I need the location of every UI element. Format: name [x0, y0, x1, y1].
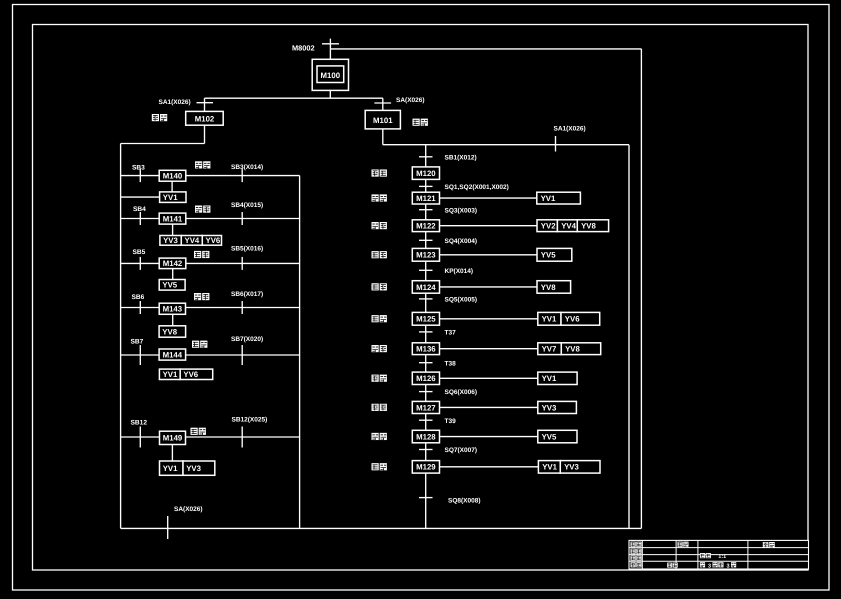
- svg-text:M126: M126: [416, 374, 436, 383]
- svg-text:SB7: SB7: [131, 339, 144, 346]
- svg-text:YV3: YV3: [564, 463, 579, 472]
- wire: [121, 125, 205, 143]
- svg-text:M142: M142: [163, 259, 183, 268]
- contact SB5: [133, 249, 146, 270]
- wire rung M140: [121, 175, 300, 177]
- svg-text:SA1(X026): SA1(X026): [159, 99, 191, 106]
- step M149: [160, 431, 186, 444]
- svg-text:1:1: 1:1: [718, 554, 726, 560]
- label M127 function: [372, 404, 379, 411]
- step M101: [365, 110, 400, 128]
- svg-text:T39: T39: [445, 418, 457, 425]
- svg-text:YV7: YV7: [542, 345, 557, 354]
- coil group YV1: [537, 192, 581, 204]
- wire: [172, 269, 174, 280]
- svg-text:YV3: YV3: [186, 464, 201, 473]
- label M120 function: [372, 169, 379, 176]
- svg-text:M124: M124: [416, 283, 436, 292]
- svg-text:SA(X026): SA(X026): [174, 506, 203, 513]
- svg-text:M125: M125: [416, 315, 436, 324]
- transition SB5(X016): [231, 246, 263, 270]
- svg-text:M122: M122: [416, 222, 436, 231]
- svg-text:M141: M141: [163, 214, 183, 223]
- coil group YV8: [537, 281, 571, 294]
- svg-text:YV1: YV1: [163, 370, 178, 379]
- svg-text:SQ7(X007): SQ7(X007): [445, 447, 478, 454]
- coil group YV1: [160, 192, 186, 203]
- wire bottom: [121, 527, 642, 529]
- wire auto bus: [425, 145, 427, 529]
- svg-text:YV6: YV6: [565, 315, 580, 324]
- svg-text:M127: M127: [416, 403, 436, 412]
- step M123: [412, 248, 439, 261]
- svg-text:M144: M144: [163, 350, 183, 359]
- svg-text:YV1: YV1: [542, 315, 557, 324]
- coil group YV5: [537, 248, 572, 261]
- svg-text:SQ5(X005): SQ5(X005): [445, 297, 478, 304]
- coil group YV1/YV3: [160, 461, 215, 475]
- coil group YV1/YV6: [538, 312, 600, 325]
- wire return right outer: [640, 49, 642, 529]
- svg-text:YV5: YV5: [541, 251, 556, 260]
- wire: [440, 254, 538, 256]
- svg-text:SB5(X016): SB5(X016): [231, 246, 263, 253]
- step M141: [159, 213, 186, 224]
- wire rung M143: [121, 307, 300, 309]
- label M142 function: [194, 251, 201, 258]
- svg-text:SB12: SB12: [131, 420, 148, 427]
- svg-text:YV1: YV1: [541, 194, 556, 203]
- coil group YV3/YV4/YV6: [160, 236, 222, 246]
- transition SB3(X014): [231, 164, 263, 182]
- transition SQ6(X006): [419, 389, 477, 396]
- svg-text:T38: T38: [445, 360, 457, 367]
- transition SQ8(X008): [419, 497, 481, 504]
- svg-text:YV4: YV4: [561, 222, 576, 231]
- svg-text:M102: M102: [195, 115, 215, 124]
- svg-text:YV4: YV4: [185, 236, 200, 245]
- step M125: [412, 312, 439, 325]
- transition SQ1,SQ2(X001,X002): [419, 184, 509, 191]
- wire: [329, 39, 331, 60]
- svg-text:SB4(X015): SB4(X015): [231, 202, 263, 209]
- transition SQ4(X004): [419, 238, 477, 245]
- transition SQ3(X003): [419, 207, 477, 214]
- step M143: [159, 303, 185, 314]
- svg-text:M123: M123: [416, 251, 436, 260]
- step M129: [412, 461, 439, 474]
- title block: [629, 540, 809, 569]
- transition SB12(X025): [232, 417, 268, 448]
- coil group YV1/YV3: [538, 461, 600, 474]
- step M142: [159, 258, 186, 269]
- step M136: [412, 343, 439, 355]
- label M136 function: [372, 345, 379, 352]
- svg-text:YV3: YV3: [163, 236, 178, 245]
- svg-text:YV1: YV1: [163, 193, 178, 202]
- wire: [440, 348, 538, 350]
- svg-text:M140: M140: [163, 172, 183, 181]
- svg-text:M100: M100: [321, 71, 341, 80]
- initial step M100: [312, 59, 348, 90]
- coil group YV7/YV8: [538, 343, 601, 355]
- coil group YV5: [159, 280, 185, 291]
- svg-text:M8002: M8002: [292, 44, 315, 53]
- transition SB1(X012): [419, 154, 477, 161]
- label M122 function: [372, 222, 379, 229]
- svg-text:SB1(X012): SB1(X012): [445, 154, 477, 161]
- label M141 function: [195, 206, 202, 213]
- wire rung M149: [121, 436, 300, 438]
- svg-text:YV3: YV3: [542, 403, 557, 412]
- wire: [382, 98, 384, 110]
- transition SQ5(X005): [419, 297, 477, 304]
- step M140: [159, 170, 186, 181]
- svg-text:YV1: YV1: [542, 463, 557, 472]
- label M140 function: [195, 161, 202, 168]
- contact SB7: [131, 339, 144, 365]
- svg-text:M121: M121: [416, 194, 436, 203]
- contact SB4: [133, 206, 146, 225]
- coil group YV3: [538, 401, 577, 413]
- wire: [440, 406, 538, 408]
- label M123 function: [372, 251, 379, 258]
- svg-text:SQ6(X006): SQ6(X006): [445, 389, 478, 396]
- svg-text:SQ8(X008): SQ8(X008): [448, 497, 481, 504]
- step M120: [412, 167, 439, 180]
- svg-text:SB7(X020): SB7(X020): [231, 336, 263, 343]
- label M129 function: [372, 463, 379, 470]
- label M128 function: [372, 433, 379, 440]
- step M144: [159, 349, 186, 360]
- svg-text:YV5: YV5: [162, 281, 177, 290]
- label M121 function: [372, 194, 379, 201]
- svg-text:YV6: YV6: [183, 370, 198, 379]
- wire branch: [205, 97, 383, 99]
- svg-text:SB4: SB4: [133, 206, 146, 213]
- svg-text:SB3: SB3: [132, 165, 145, 172]
- svg-text:M143: M143: [163, 305, 183, 314]
- transition T38: [419, 360, 456, 367]
- svg-text:SA1(X026): SA1(X026): [554, 126, 586, 133]
- label M125 function: [372, 315, 379, 322]
- wire: [440, 377, 538, 379]
- wire: [440, 318, 538, 320]
- svg-text:YV8: YV8: [541, 283, 556, 292]
- svg-text:YV1: YV1: [163, 464, 178, 473]
- step M126: [412, 372, 439, 384]
- svg-text:YV2: YV2: [541, 222, 556, 231]
- label M144 function: [192, 341, 199, 348]
- transition SA1(X026) manual: [159, 99, 214, 106]
- wire: [171, 445, 173, 462]
- wire rung M141: [121, 218, 300, 220]
- svg-text:SB6: SB6: [132, 294, 145, 301]
- svg-text:YV6: YV6: [206, 236, 221, 245]
- step M127: [412, 401, 439, 413]
- step M124: [412, 281, 439, 294]
- svg-text:SQ3(X003): SQ3(X003): [445, 207, 478, 214]
- transition SB6(X017): [231, 291, 263, 314]
- wire manual right bus: [299, 176, 301, 529]
- transition SA(X026) auto: [374, 97, 424, 104]
- transition SA(X026) bottom: [168, 506, 203, 539]
- wire: [440, 436, 538, 438]
- transition T37: [419, 330, 456, 337]
- svg-text:M149: M149: [163, 434, 183, 443]
- step M128: [412, 430, 439, 443]
- transition SB4(X015): [231, 202, 263, 225]
- wire rung M144: [121, 354, 300, 356]
- wire rung M142: [121, 262, 300, 264]
- wire return right inner: [628, 145, 630, 529]
- step M121: [412, 192, 439, 204]
- coil group YV8: [159, 326, 186, 337]
- svg-text:SQ1,SQ2(X001,X002): SQ1,SQ2(X001,X002): [445, 184, 509, 191]
- label M143 function: [194, 293, 201, 300]
- coil group YV1/YV6: [159, 369, 212, 379]
- svg-text:3: 3: [727, 563, 730, 569]
- wire: [440, 197, 537, 199]
- wire left bus: [120, 144, 122, 529]
- transition SB7(X020): [231, 336, 263, 365]
- svg-text:SB6(X017): SB6(X017): [231, 291, 263, 298]
- label manual: [152, 114, 159, 121]
- step M102: [186, 111, 224, 125]
- coil group YV1: [538, 372, 577, 384]
- svg-text:YV8: YV8: [162, 327, 177, 336]
- svg-text:SB3(X014): SB3(X014): [231, 164, 263, 171]
- wire: [383, 129, 629, 145]
- svg-text:3: 3: [708, 563, 711, 569]
- svg-text:YV8: YV8: [565, 345, 580, 354]
- svg-text:SA(X026): SA(X026): [396, 97, 425, 104]
- svg-text:SQ4(X004): SQ4(X004): [445, 238, 478, 245]
- svg-text:SB5: SB5: [133, 249, 146, 256]
- contact SB12: [131, 420, 148, 448]
- svg-text:SB12(X025): SB12(X025): [232, 417, 268, 424]
- coil group YV5: [538, 430, 577, 443]
- transition M8002 tick: [322, 43, 339, 45]
- wire: [204, 98, 206, 111]
- svg-text:M128: M128: [416, 432, 436, 441]
- transition KP(X014): [419, 268, 473, 275]
- label auto: [413, 119, 420, 126]
- svg-text:M101: M101: [373, 116, 393, 125]
- label M124 function: [372, 283, 379, 290]
- svg-text:YV5: YV5: [542, 432, 557, 441]
- svg-text:YV1: YV1: [542, 374, 557, 383]
- transition SQ7(X007): [419, 447, 477, 454]
- svg-text:KP(X014): KP(X014): [445, 268, 474, 275]
- label M149 function: [191, 428, 198, 435]
- wire: [121, 196, 160, 198]
- wire: [440, 466, 539, 468]
- svg-text:M136: M136: [416, 345, 436, 354]
- label M126 function: [372, 375, 379, 382]
- svg-text:M129: M129: [416, 463, 436, 472]
- contact SB3: [132, 165, 145, 183]
- wire: [440, 286, 538, 288]
- wire: [171, 181, 173, 192]
- svg-text:YV8: YV8: [581, 222, 596, 231]
- wire: [330, 48, 641, 50]
- transition T39: [419, 418, 456, 425]
- svg-text:M120: M120: [416, 169, 436, 178]
- wire: [440, 225, 538, 227]
- wire: [329, 90, 331, 98]
- contact SB6: [132, 294, 145, 314]
- coil group YV2/YV4/YV8: [537, 220, 609, 232]
- transition SA1(X026) right: [554, 126, 586, 152]
- svg-text:T37: T37: [445, 330, 457, 337]
- wire: [172, 224, 174, 235]
- wire: [172, 314, 174, 326]
- step M122: [412, 220, 439, 232]
